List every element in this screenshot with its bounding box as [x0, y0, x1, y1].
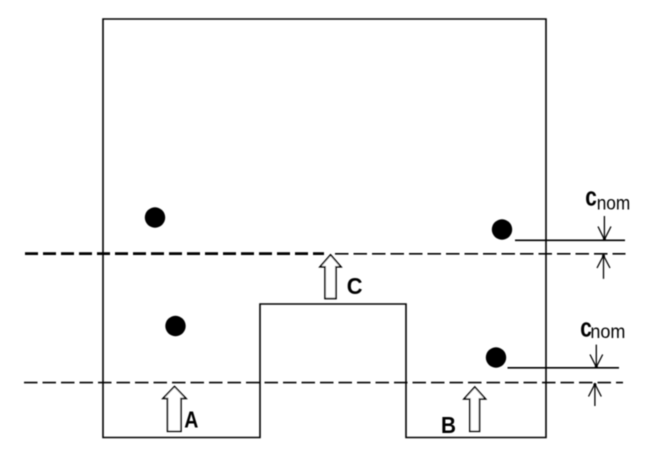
label B: [441, 412, 456, 438]
lower cnom down arrow: [590, 345, 603, 368]
block arrow C: [320, 255, 341, 299]
block arrow A: [163, 387, 186, 432]
thin dashed line (lower): [24, 382, 623, 384]
thick dashed line (left portion): [25, 252, 324, 255]
upper cnom down arrow: [598, 216, 611, 241]
svg-text:c: c: [585, 182, 597, 211]
rebar dot upper-left: [145, 207, 165, 227]
reference line from upper-right dot: [515, 239, 625, 241]
upper cnom up arrow: [597, 255, 610, 279]
reference line from lower-right dot: [508, 367, 620, 369]
slab outline with recess: [103, 19, 546, 438]
rebar dot upper-right: [492, 219, 512, 239]
svg-text:B: B: [441, 412, 456, 438]
label C: [347, 273, 363, 299]
rebar dot lower-right: [486, 347, 506, 367]
lower cnom up arrow: [589, 383, 602, 406]
label cnom lower: [580, 313, 592, 342]
thin dashed line (upper right portion): [335, 253, 626, 255]
label A: [184, 407, 198, 433]
svg-text:C: C: [347, 273, 363, 299]
svg-text:A: A: [184, 407, 198, 433]
block arrow B: [464, 387, 486, 431]
svg-text:nom: nom: [597, 194, 631, 215]
rebar dot lower-left: [165, 316, 185, 336]
svg-text:nom: nom: [590, 322, 625, 343]
label cnom upper: [585, 182, 597, 211]
